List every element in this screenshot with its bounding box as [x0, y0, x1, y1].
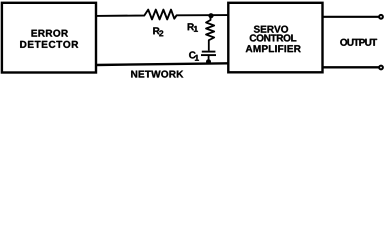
label OUTPUT — [340, 39, 377, 46]
capacitor C1 top plate — [202, 51, 216, 53]
wire output top — [323, 16, 379, 18]
terminal top — [379, 15, 383, 19]
label SERVO — [254, 26, 288, 33]
capacitor C1 lead — [208, 56, 210, 63]
capacitor C1 bottom plate — [201, 54, 216, 56]
capacitor C1 label — [189, 51, 196, 58]
resistor R1 label — [188, 23, 194, 30]
node junction bottom — [206, 59, 211, 64]
wire output bottom — [323, 66, 379, 68]
label CONTROL — [250, 34, 297, 41]
block ERROR DETECTOR — [2, 3, 96, 73]
label AMPLIFIER — [246, 45, 301, 52]
terminal bottom — [379, 66, 383, 70]
node junction top — [208, 13, 213, 18]
wire top with resistor R2 zigzag — [96, 10, 228, 20]
label NETWORK — [131, 71, 183, 78]
label ERROR — [32, 30, 68, 37]
resistor R2 label — [153, 27, 159, 34]
block SERVO CONTROL AMPLIFIER — [228, 3, 322, 73]
wire bottom — [96, 63, 228, 65]
label DETECTOR — [20, 41, 78, 48]
resistor R1 vertical zigzag — [206, 16, 214, 51]
